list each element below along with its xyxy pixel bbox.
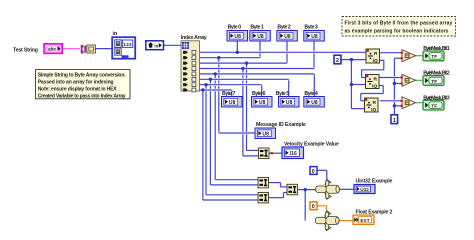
indicator Float Example 2 (353, 209, 393, 224)
comment box: string conversion notes (36, 70, 131, 100)
wire index row 3 (byte 2) (200, 62, 288, 65)
wire constant 2 to QR1 divisor (341, 59, 366, 61)
array indicator in (112, 37, 135, 59)
indicator Uint32 Example (354, 178, 393, 193)
constant 0 (float type, orange) (310, 202, 317, 210)
wire byte7 into join B lower (203, 199, 259, 201)
wire blue 0 constant to typecast1 (317, 169, 327, 171)
comparison Equal? 2 (402, 74, 416, 86)
function String To Byte Array (81, 45, 95, 53)
wire constant-2 vertical to QR divisors (350, 60, 352, 109)
svg-text:Velocity Example Value: Velocity Example Value (284, 142, 339, 148)
svg-text:I16: I16 (290, 151, 297, 157)
svg-text:First 3 bits of Byte 0 from th: First 3 bits of Byte 0 from the passed a… (345, 20, 453, 26)
wire into QR2 x input (362, 77, 366, 79)
wire Byte 3 indicator drop (313, 41, 315, 69)
svg-text:ByteMask, Bit 2: ByteMask, Bit 2 (423, 71, 450, 77)
function Type Cast 1 (316, 179, 340, 199)
wire to QR3 divisor (351, 108, 364, 110)
wire index row 5 (byte 4) (200, 73, 315, 76)
wire into QR3 x input (361, 100, 365, 102)
comment box: first 3 bits note (342, 17, 456, 37)
svg-text:Byte 0: Byte 0 (228, 25, 242, 31)
wire byte5 into join A lower (210, 184, 258, 186)
svg-text:Byte 2: Byte 2 (277, 25, 291, 31)
constant 0 (U32 type) (310, 167, 317, 175)
Index Array row glyphs (183, 50, 196, 92)
wire constant 1 to equals3 lower input (394, 105, 402, 107)
wire byte3 drop to velocity join (242, 69, 244, 156)
indicator Velocity Example Value (282, 142, 339, 159)
wire byte1 drop to Message ID (218, 58, 220, 133)
svg-text:Byte 3: Byte 3 (304, 25, 318, 31)
wire QR1 quotient route vertical a (383, 60, 385, 70)
wire byte3 into velocity join lower (243, 155, 259, 157)
comparison Equal? 3 (402, 97, 416, 109)
wire join B output (269, 197, 284, 199)
svg-text:U32: U32 (360, 187, 369, 192)
wire QR2 quotient route vertical a (382, 86, 384, 94)
wire byte4 into join A upper (215, 179, 258, 181)
wire index row 4 (byte 3) (200, 67, 315, 70)
wire QR2 quotient out (379, 85, 383, 87)
junction dots (201, 51, 396, 192)
wire Byte 6 indicator feed (261, 85, 263, 97)
wire index row 1 (byte 0) (200, 51, 367, 54)
wire string constant to converter (pink) (62, 48, 80, 50)
function Join Numbers A (258, 177, 269, 188)
wire QR2 quotient route vertical b (360, 94, 362, 101)
wire byte2 drop to velocity join (246, 63, 248, 150)
wire byte5 drop to join A (209, 79, 211, 185)
constant 2 (334, 55, 341, 64)
svg-text:Simple String to Byte Array co: Simple String to Byte Array conversion. (38, 73, 127, 79)
svg-text:Byte 4: Byte 4 (304, 91, 318, 97)
wire type constant orange drop to typecast2 (326, 206, 328, 212)
function Type Cast 2 (315, 211, 339, 231)
function Quotient-Remainder 3 (365, 98, 379, 113)
indicator ByteMask Bit 3 (423, 95, 450, 110)
indicator Byte 4 (304, 91, 325, 107)
wire typecast2 to Float indicator (orange) (339, 220, 354, 222)
wire index row 6 (byte 5) (200, 78, 289, 81)
svg-text:Passed into an array for index: Passed into an array for indexing (38, 80, 114, 86)
wire typecast split vertical (304, 190, 306, 221)
indicator ByteMask Bit 2 (423, 71, 450, 86)
indicator Byte 0 (227, 25, 248, 41)
indicator Byte 6 (252, 91, 273, 107)
svg-text:123: 123 (123, 42, 132, 48)
wire constant-1 vertical to equals inputs (393, 58, 395, 115)
wire Byte 1 indicator drop (259, 41, 261, 58)
wire constant 1 to equals2 lower input (394, 83, 402, 85)
svg-text:Created Variable to pass into: Created Variable to pass into Index Arra… (38, 93, 126, 99)
indicator Byte 1 (250, 25, 270, 41)
wire join C output to typecasts (298, 188, 317, 191)
wire Byte 0 indicator drop (236, 41, 238, 52)
wire join A to join C vertical (280, 183, 282, 187)
comparison Equal? 1 (402, 50, 416, 62)
svg-text:Float Example 2: Float Example 2 (356, 209, 393, 215)
wire orange 0 constant to typecast2 (317, 205, 327, 207)
wire QR1 quotient out (379, 59, 384, 61)
svg-text:in: in (113, 31, 118, 37)
WIRES-HORIZONTAL (with crossing gaps) (62, 45, 424, 220)
wire byte7 drop to join B (202, 90, 204, 200)
wire byte4 drop to join A (214, 74, 216, 180)
svg-text:Message ID Example: Message ID Example (256, 122, 306, 128)
indicator Byte 2 (277, 25, 298, 41)
function Quotient-Remainder 1 (366, 49, 380, 64)
indicator Byte 3 (304, 25, 325, 41)
wire Byte 5 indicator feed (288, 79, 290, 96)
wire equals2 to ByteMask Bit2 (boolean green) (416, 79, 424, 81)
indicator Byte 7 (222, 91, 243, 107)
function Index Array (181, 41, 200, 91)
wire local variable to Index Array (164, 44, 182, 46)
wire to QR2 divisor (351, 84, 366, 86)
svg-text:0: 0 (312, 169, 315, 175)
wire index row 2 (byte 1) (200, 56, 261, 59)
function Join Numbers (velocity) (259, 148, 270, 159)
WIRES-VERTICAL (203, 41, 395, 221)
wire equals1 to ByteMask Bit1 (boolean green) (416, 55, 424, 57)
indicator Byte 5 (276, 91, 299, 107)
function Join Numbers B (258, 192, 269, 203)
wire join B to join C vertical (283, 193, 285, 198)
wire typecast1 to UInt32 indicator (339, 188, 355, 190)
wire equals3 to ByteMask Bit3 (boolean green) (416, 102, 424, 104)
wire velocity join output (269, 152, 283, 154)
wire QR2 remainder to equals2 (379, 76, 403, 79)
wire Byte 2 indicator drop (286, 41, 288, 63)
svg-text:Byte 1: Byte 1 (250, 25, 264, 31)
wire index row 8 (byte 7) (200, 89, 232, 92)
wire join B to join C bottom input (284, 192, 288, 194)
svg-text:Byte 7: Byte 7 (222, 91, 236, 97)
svg-text:Byte 6: Byte 6 (252, 91, 266, 97)
wire constant 1 to equals1 lower input (394, 57, 402, 59)
string constant abc (44, 44, 62, 54)
wire type constant blue drop to typecast1 (326, 170, 328, 181)
svg-text:0: 0 (312, 204, 315, 210)
svg-text:Uint32 Example: Uint32 Example (356, 178, 393, 184)
svg-text:2: 2 (336, 58, 339, 64)
svg-text:Note: ensure display format in: Note: ensure display format in HEX (38, 86, 118, 92)
wire Byte 4 indicator feed (313, 74, 315, 97)
wire byte6 drop to join B (205, 85, 207, 195)
svg-text:Byte 5: Byte 5 (276, 91, 290, 97)
wire Byte 7 indicator feed (231, 90, 233, 97)
svg-text:Test String: Test String (13, 47, 38, 53)
svg-text:abc: abc (48, 47, 57, 52)
local variable in (146, 41, 164, 50)
wire join A to join C top input (281, 186, 288, 188)
svg-text:1: 1 (393, 118, 396, 124)
wire join A output (269, 182, 281, 184)
wire QR3 remainder to equals3 (380, 100, 403, 103)
svg-text:EXT: EXT (360, 218, 369, 223)
wire QR2 quotient route horizontal (361, 93, 383, 95)
wire QR1 quotient route vertical b (361, 70, 363, 78)
wire byte6 into join B upper (206, 194, 259, 196)
svg-text:in: in (154, 44, 158, 49)
coercion dots (271, 50, 403, 155)
function Join Numbers C (287, 184, 298, 195)
wire converter to array indicator (95, 48, 113, 50)
wire QR1 quotient route horizontal (362, 69, 384, 71)
svg-text:ByteMask, Bit 3: ByteMask, Bit 3 (423, 95, 450, 101)
wire to Message ID indicator (219, 132, 256, 135)
wire byte2 into velocity join upper (247, 149, 260, 151)
svg-text:ByteMask, Bit 1: ByteMask, Bit 1 (423, 46, 450, 52)
constant 1 (391, 115, 398, 124)
indicator ByteMask Bit 1 (423, 46, 450, 61)
wire QR1 remainder to equals1 (379, 52, 403, 54)
indicator Message ID Example (255, 122, 306, 139)
function Quotient-Remainder 2 (366, 75, 380, 90)
svg-text:Index Array: Index Array (181, 35, 207, 41)
wire index row 7 (byte 6) (200, 83, 262, 86)
svg-text:as example parsing for boolean: as example parsing for boolean indicator… (345, 28, 449, 34)
